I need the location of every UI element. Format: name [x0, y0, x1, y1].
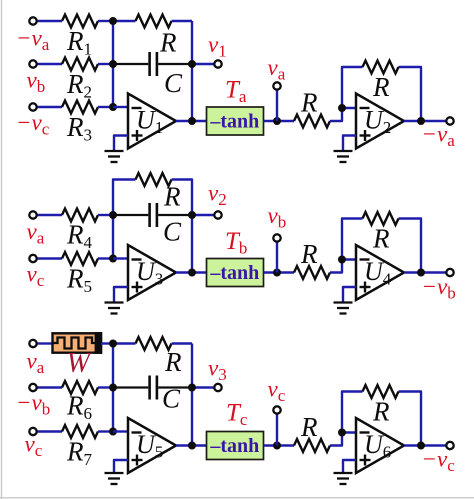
- wire summing node vertical U5: [112, 344, 114, 432]
- resistor R2: [62, 58, 98, 71]
- terminal vb tap: [273, 234, 280, 241]
- resistor R6: [62, 381, 98, 394]
- junction node inverting U3: [109, 255, 117, 263]
- wire R5 to summing node: [98, 257, 113, 259]
- terminal -va out: [446, 117, 453, 124]
- op-amp U4: [356, 245, 404, 300]
- tanh block Ta: [207, 107, 264, 135]
- resistor R series U2: [294, 115, 330, 128]
- svg-text:R: R: [372, 397, 390, 427]
- resistor R1: [62, 15, 98, 28]
- wire W to summing node: [101, 342, 113, 344]
- terminal va tap: [273, 82, 280, 89]
- wire U5 output to tanh: [176, 444, 207, 446]
- wire feedback R to output node U5: [172, 342, 193, 344]
- resistor R feedback U6: [363, 385, 399, 398]
- wire R to inverting input U6: [330, 433, 356, 446]
- svg-text:–tanh: –tanh: [209, 111, 259, 133]
- wire to inverting input U1: [113, 106, 128, 108]
- junction node C row U1: [109, 60, 117, 68]
- wire R3 to summing node: [98, 106, 113, 108]
- wire tanh to R series U6: [264, 444, 295, 446]
- wire summing node vertical U1: [112, 21, 114, 107]
- terminal -vc: [29, 103, 36, 110]
- wire feedback loop left U6: [342, 392, 363, 433]
- memristor W: [53, 332, 103, 354]
- capacitor C U3: [113, 203, 192, 227]
- terminal v2: [214, 211, 221, 218]
- junction U3 output node: [188, 269, 196, 277]
- junction v3 node: [188, 384, 196, 392]
- wire feedback loop left U2: [342, 67, 363, 108]
- junction va tap: [273, 117, 281, 125]
- junction v1 node: [188, 60, 196, 68]
- junction inverting U4: [338, 256, 346, 264]
- wire vc tap vertical: [276, 414, 278, 446]
- ground U2: [334, 151, 353, 162]
- resistor R feedback U5: [136, 337, 172, 350]
- junction inverting U6: [338, 429, 346, 437]
- svg-text:R: R: [300, 88, 318, 118]
- junction node inverting U1: [109, 103, 117, 111]
- ground U1: [105, 151, 124, 162]
- wire U1 + input to ground: [114, 136, 128, 151]
- wire input -vb to R6: [38, 386, 63, 388]
- svg-text:–tanh: –tanh: [209, 262, 259, 284]
- wire node to terminal v1: [192, 63, 214, 65]
- op-amp U1: [128, 94, 176, 149]
- wire feedback loop right U2: [399, 67, 422, 121]
- tanh block Tb: [207, 259, 264, 287]
- capacitor C U1: [113, 52, 192, 76]
- resistor R feedback U2: [363, 61, 399, 74]
- wire feedback R to output node U1: [172, 20, 193, 22]
- wire tanh to R series U4: [264, 271, 295, 273]
- svg-text:W: W: [67, 348, 93, 379]
- svg-text:R: R: [164, 347, 182, 377]
- resistor R4: [62, 209, 98, 222]
- wire node to terminal v2: [192, 214, 214, 216]
- svg-text:C: C: [164, 68, 183, 98]
- wire vb tap vertical: [276, 242, 278, 273]
- wire U3 + input to ground: [114, 287, 128, 302]
- resistor R series U4: [294, 266, 330, 279]
- op-amp U2: [356, 94, 404, 149]
- svg-text:C: C: [162, 384, 181, 414]
- junction U4 output: [417, 269, 425, 277]
- wire input -vc to R3: [38, 106, 63, 108]
- resistor R feedback U4: [363, 212, 399, 225]
- terminal va in3: [29, 340, 36, 347]
- junction v2 node: [188, 211, 196, 219]
- wire output node vertical U1: [191, 21, 193, 121]
- wire U3 output to tanh: [176, 271, 207, 273]
- resistor R series U6: [294, 439, 330, 452]
- wire R7 to summing node: [98, 430, 113, 432]
- wire R to inverting input U2: [330, 108, 356, 121]
- wire to inverting input U3: [113, 257, 128, 259]
- junction U5 output node: [188, 442, 196, 450]
- wire U2 + input to ground: [343, 136, 356, 151]
- wire node to feedback R U5: [113, 342, 136, 344]
- ground U5: [105, 473, 124, 484]
- terminal -va: [29, 17, 36, 24]
- wire U6 output to terminal -vc: [404, 444, 446, 446]
- terminal -vb out: [446, 269, 453, 276]
- resistor R feedback U3: [136, 173, 172, 186]
- junction node inverting U5: [109, 428, 117, 436]
- wire U1 output to tanh: [176, 120, 207, 122]
- wire input vc to R5: [38, 257, 63, 259]
- wire U6 + input to ground: [343, 460, 356, 473]
- junction node W/R: [109, 340, 117, 348]
- svg-text:R: R: [163, 182, 181, 212]
- terminal va: [29, 211, 36, 218]
- wire input vc to R7: [38, 430, 63, 432]
- wire summing node vertical U3: [113, 180, 136, 259]
- wire R to inverting input U4: [330, 260, 356, 273]
- wire R4 to summing node: [98, 214, 113, 216]
- figure border left: [1, 0, 3, 499]
- junction node C row U5: [109, 384, 117, 392]
- svg-text:R: R: [372, 72, 390, 102]
- junction U2 output: [417, 117, 425, 125]
- junction U6 output: [417, 442, 425, 450]
- svg-text:–tanh: –tanh: [209, 435, 259, 457]
- op-amp U3: [128, 245, 176, 300]
- terminal vb: [29, 60, 36, 67]
- wire output node vertical U5: [191, 344, 193, 446]
- wire tanh to R series U2: [264, 120, 295, 122]
- wire input -va to R1: [38, 20, 63, 22]
- wire U4 + input to ground: [343, 287, 356, 302]
- wire R6 to summing node: [98, 386, 113, 388]
- ground U3: [105, 303, 124, 314]
- wire input va to R4: [38, 214, 63, 216]
- junction node C row U3: [109, 211, 117, 219]
- op-amp U6: [356, 418, 404, 473]
- wire feedback loop right U6: [399, 392, 422, 446]
- wire input vb to R2: [38, 63, 63, 65]
- wire feedback R to output node U3: [172, 180, 193, 273]
- junction inverting U2: [338, 104, 346, 112]
- terminal v3: [214, 384, 221, 391]
- svg-text:C: C: [163, 217, 182, 247]
- ground U6: [334, 473, 353, 484]
- junction U1 output node: [188, 117, 196, 125]
- resistor R7: [62, 425, 98, 438]
- terminal -vc out: [446, 442, 453, 449]
- wire feedback loop right U4: [399, 219, 422, 273]
- terminal vc in3: [29, 428, 36, 435]
- resistor R3: [62, 101, 98, 114]
- svg-text:R: R: [300, 239, 318, 269]
- junction vb tap: [273, 269, 281, 277]
- svg-text:R: R: [159, 28, 177, 58]
- svg-text:R: R: [372, 224, 390, 254]
- junction vc tap: [273, 442, 281, 450]
- figure border bottom: [0, 497, 474, 499]
- wire node to terminal v3: [192, 386, 214, 388]
- junction node R1/R: [109, 17, 117, 25]
- wire to inverting input U5: [113, 430, 128, 432]
- capacitor C U5: [113, 376, 192, 400]
- terminal -vb: [29, 384, 36, 391]
- tanh block Tc: [207, 432, 264, 460]
- wire U2 output to terminal -va: [404, 120, 446, 122]
- resistor R feedback U1: [136, 15, 172, 28]
- terminal vc: [29, 255, 36, 262]
- wire U5 + input to ground: [114, 460, 128, 473]
- wire input va to memristor W: [38, 342, 53, 344]
- op-amp U5: [128, 418, 176, 473]
- ground U4: [334, 303, 353, 314]
- wire U4 output to terminal -vb: [404, 271, 446, 273]
- wire R2 to summing node: [98, 63, 113, 65]
- wire va tap vertical: [276, 90, 278, 121]
- wire R1 to summing node: [98, 20, 113, 22]
- terminal vc tap: [273, 406, 280, 413]
- svg-text:R: R: [300, 412, 318, 442]
- wire feedback loop left U4: [342, 219, 363, 260]
- terminal v1: [214, 60, 221, 67]
- wire node to feedback R U1: [113, 20, 136, 22]
- resistor R5: [62, 252, 98, 265]
